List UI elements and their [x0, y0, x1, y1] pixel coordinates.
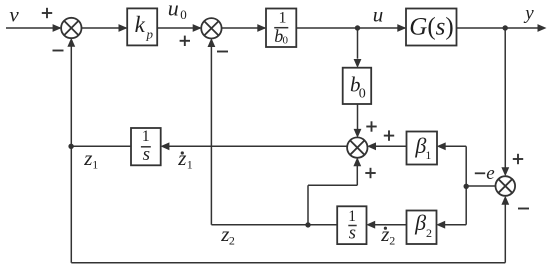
- wire: S2 to 1/b0 block: [222, 24, 267, 32]
- svg-text:s: s: [349, 224, 356, 244]
- wire: 1/b0 to G(s) with node u: [296, 24, 406, 32]
- plus sign at S3 bottom input: [365, 168, 375, 178]
- wire: node y down into S4 (plus input): [501, 28, 509, 176]
- wire: z2 up into S2 (minus input): [208, 38, 216, 225]
- node label z2: [220, 222, 235, 247]
- svg-text:G(s): G(s): [409, 13, 453, 40]
- summing junction S3: [347, 137, 367, 157]
- wire: z2 branch up to S3 bottom input: [308, 157, 361, 224]
- svg-text:1: 1: [142, 128, 150, 145]
- input label v: [9, 3, 19, 27]
- svg-text:z: z: [83, 146, 92, 170]
- node label -e: [475, 163, 495, 184]
- svg-text:v: v: [9, 3, 19, 27]
- svg-text:1: 1: [187, 157, 193, 171]
- wire: node e down and left into beta2: [436, 186, 466, 229]
- wire: bottom feedback line: [71, 262, 505, 264]
- wire: node e up and left into beta1: [437, 142, 467, 186]
- svg-text:2: 2: [229, 234, 235, 248]
- plant block G(s): [406, 9, 457, 46]
- minus sign at S2 lower input: [217, 51, 228, 53]
- wire: v input to summing junction S1: [6, 24, 62, 32]
- wire: kp to summing junction S2: [157, 24, 202, 32]
- wire: S4 output to node e: [466, 185, 495, 187]
- svg-text:y: y: [523, 3, 534, 24]
- node label z1: [83, 146, 98, 171]
- junction dot at node z2: [305, 222, 310, 227]
- minus sign at S4 lower input: [518, 208, 529, 210]
- integrator block 1/s lower: [337, 206, 366, 244]
- svg-text:p: p: [145, 27, 153, 42]
- wire: bottom line up into S4 (minus input): [501, 196, 509, 263]
- svg-text:0: 0: [283, 34, 289, 46]
- wire: 1/s lower output left along z2 row: [211, 224, 337, 226]
- minus sign at S1 lower input: [53, 50, 64, 52]
- wire: z1 feedback up into S1 (minus input): [67, 38, 75, 263]
- svg-text:2: 2: [426, 226, 432, 240]
- wire: node u down to b0 block: [354, 28, 362, 68]
- junction dot at node z1: [68, 144, 73, 149]
- plus sign at S1 upper input: [42, 8, 52, 18]
- node label z2dot: [380, 222, 395, 247]
- gain block kp: [127, 8, 157, 45]
- node label u0: [168, 0, 187, 22]
- wire: G(s) to output y: [457, 24, 547, 32]
- svg-text:e: e: [486, 163, 494, 184]
- svg-text:z: z: [380, 222, 389, 246]
- gain block beta2: [407, 210, 437, 244]
- plus sign at S4 upper input: [513, 154, 523, 164]
- svg-text:0: 0: [180, 7, 187, 22]
- svg-text:u: u: [168, 0, 179, 21]
- wire: beta1 to S3 right input: [367, 142, 407, 150]
- wire: beta2 to integrator 1/s lower (z2dot): [366, 221, 406, 229]
- gain block beta1: [407, 132, 438, 165]
- wire: 1/s to node z1: [71, 145, 131, 147]
- junction dot at node e: [464, 184, 469, 189]
- junction dot at node u: [355, 25, 360, 30]
- svg-text:k: k: [135, 12, 146, 37]
- wire: b0 down to summing junction S3: [354, 104, 362, 138]
- svg-text:0: 0: [359, 87, 366, 102]
- svg-text:u: u: [373, 3, 384, 27]
- svg-text:1: 1: [348, 208, 356, 225]
- svg-text:1: 1: [425, 148, 431, 162]
- svg-text:1: 1: [92, 157, 98, 171]
- summing junction S4: [496, 176, 516, 196]
- output label y: [523, 3, 534, 24]
- integrator block 1/s upper: [131, 128, 161, 165]
- svg-text:s: s: [143, 144, 150, 165]
- wire: S1 to kp block: [82, 24, 128, 32]
- node label u: [373, 3, 384, 27]
- block 1/b0: [266, 9, 296, 48]
- plus sign at S3 top input: [366, 121, 376, 131]
- junction dot at node y: [503, 25, 508, 30]
- plus sign at S3 right input: [384, 130, 394, 140]
- svg-text:z: z: [177, 146, 186, 170]
- svg-text:2: 2: [389, 234, 395, 248]
- plus sign at S2 left input: [180, 36, 190, 46]
- block b0: [343, 68, 372, 104]
- summing junction S1: [61, 18, 81, 38]
- svg-text:1: 1: [279, 9, 287, 26]
- node label z1dot: [177, 146, 193, 171]
- svg-text:β: β: [414, 210, 426, 235]
- summing junction S2: [201, 18, 221, 38]
- wire: S3 output to integrator 1/s (z1dot): [160, 142, 347, 150]
